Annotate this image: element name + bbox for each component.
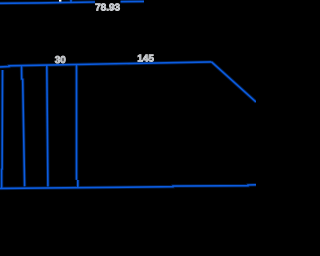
- svg-text:145: 145: [137, 53, 154, 64]
- wire vertical edge 4 lower: [77, 180, 79, 188]
- wire dimension line 78.93 right segment: [120, 0, 145, 2]
- svg-text:78.93: 78.93: [95, 2, 120, 13]
- wire vertical edge 2: [22, 66, 25, 187]
- wire bottom edge: [0, 185, 256, 189]
- wire extension tick: [70, 0, 72, 3]
- node text 30: [55, 55, 67, 66]
- wire vertical edge 4 upper: [76, 65, 78, 180]
- wire vertical edge 1: [1, 70, 4, 189]
- wire top edge: [0, 62, 212, 67]
- svg-text:30: 30: [55, 55, 67, 66]
- wire glow overlay (all edges): [0, 0, 256, 189]
- node text 78.93: [95, 0, 121, 13]
- wire dimension line 78.93 left segment: [0, 2, 96, 3]
- node text 145: [137, 53, 154, 64]
- node grip tick: [59, 0, 61, 2]
- wire vertical edge 3: [47, 65, 48, 186]
- wire chamfer diagonal: [212, 62, 257, 102]
